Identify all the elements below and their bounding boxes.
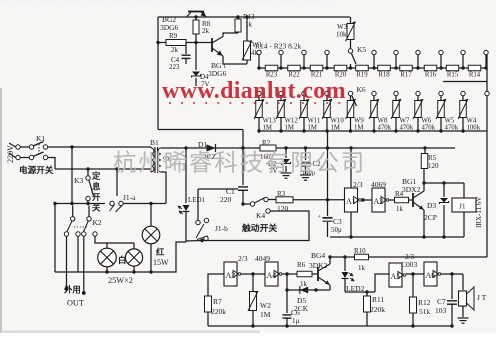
wire A5 input bbox=[375, 274, 389, 292]
diode D5 bbox=[287, 289, 330, 291]
switch K2 pole1 bbox=[72, 206, 74, 217]
op-amp A1 (inverter) bbox=[345, 188, 358, 212]
wire A3 to A4 bbox=[241, 273, 265, 275]
svg-text:K5: K5 bbox=[357, 45, 366, 54]
node R13 top bbox=[236, 15, 239, 18]
terminal lamp row 2 bbox=[76, 232, 80, 236]
op-amp A4 (inverter) bbox=[265, 262, 278, 286]
switch K3 bbox=[87, 169, 89, 176]
svg-text:W9: W9 bbox=[354, 118, 364, 125]
wire LED1 vertical bbox=[185, 148, 187, 203]
svg-text:K1: K1 bbox=[36, 134, 45, 143]
svg-text:470k: 470k bbox=[445, 125, 459, 132]
svg-text:K2: K2 bbox=[93, 218, 102, 227]
svg-text:K6: K6 bbox=[357, 85, 366, 94]
svg-text:开: 开 bbox=[92, 192, 101, 202]
capacitor C6 bbox=[286, 274, 288, 313]
wire collector up bbox=[423, 171, 425, 191]
node W1 top bbox=[245, 15, 248, 18]
zener D2 bbox=[284, 146, 287, 149]
svg-text:2k: 2k bbox=[171, 46, 179, 54]
wire right border bbox=[486, 55, 488, 131]
potentiometer W10 bbox=[326, 96, 328, 100]
svg-text:3DG6: 3DG6 bbox=[160, 23, 179, 32]
svg-text:A1: A1 bbox=[346, 197, 356, 206]
svg-text:50μ: 50μ bbox=[331, 226, 342, 234]
svg-text:470k: 470k bbox=[378, 125, 392, 132]
svg-text:OUT: OUT bbox=[67, 299, 84, 308]
K1 link dashed bbox=[38, 144, 40, 155]
wire bottom bus bbox=[208, 325, 452, 327]
svg-text:C3: C3 bbox=[333, 217, 342, 226]
svg-text:触动开关: 触动开关 bbox=[242, 222, 277, 233]
resistor R12 bbox=[412, 274, 414, 297]
svg-text:W8: W8 bbox=[378, 118, 388, 125]
node A1 supply bbox=[349, 146, 352, 149]
terminal W12 top bbox=[279, 91, 283, 95]
svg-text:BG4: BG4 bbox=[311, 251, 325, 260]
node R5 top bbox=[423, 146, 426, 149]
wire emitter down bbox=[423, 210, 425, 237]
wire pot bank bottom bus bbox=[259, 130, 487, 132]
resistor R10 bbox=[330, 256, 354, 258]
wire K1 pole2 to rail 169 bbox=[48, 158, 55, 170]
svg-text:C7: C7 bbox=[437, 297, 446, 306]
node x55 y203 bbox=[53, 202, 56, 205]
svg-text:W2: W2 bbox=[260, 301, 271, 310]
wire OUT line 2 bbox=[83, 236, 85, 292]
zener D3 bbox=[442, 181, 445, 184]
switch K5 bbox=[348, 49, 352, 53]
svg-text:2CP: 2CP bbox=[424, 213, 437, 222]
wire lamp bottom bus bbox=[55, 271, 151, 273]
wire spare selector bbox=[77, 236, 79, 272]
node C1 branch bbox=[241, 146, 244, 149]
svg-text:3DG6: 3DG6 bbox=[208, 69, 227, 78]
svg-text:1M: 1M bbox=[308, 125, 317, 132]
svg-text:R14 - R23 8.2k: R14 - R23 8.2k bbox=[255, 42, 302, 51]
speaker JT bbox=[462, 274, 464, 290]
node collector rail bbox=[422, 181, 425, 184]
resistor R16 bbox=[424, 65, 437, 71]
capacitor C1 bbox=[242, 148, 244, 185]
wire LED1 lower bbox=[185, 212, 187, 243]
wire top rail bbox=[158, 16, 350, 18]
node top wire x72 bbox=[70, 145, 73, 148]
wire BG4 emitter bbox=[329, 285, 331, 290]
wire relay top rail bbox=[424, 182, 464, 184]
wire red lamp top bbox=[150, 203, 152, 226]
potentiometer W5 bbox=[440, 96, 442, 100]
switch K1 pole1 bbox=[9, 143, 16, 147]
lamp red bbox=[142, 226, 160, 244]
node x88 y203 bbox=[86, 202, 89, 205]
wire C1 left link bbox=[198, 188, 238, 190]
capacitor C3 bbox=[323, 217, 333, 219]
svg-text:R9: R9 bbox=[169, 32, 178, 40]
potentiometer W11 bbox=[303, 96, 305, 100]
wire pot bus to C3 vertical bbox=[327, 131, 329, 216]
terminal tap 9 (K5 bank) bbox=[461, 50, 465, 54]
resistor R7 bbox=[205, 296, 212, 312]
relay contact J1-b bbox=[196, 220, 200, 224]
potentiometer W3 bbox=[350, 17, 352, 23]
wire A4 out bbox=[282, 273, 297, 275]
node J1-a top bbox=[115, 167, 118, 170]
potentiometer W4 bbox=[462, 96, 464, 100]
svg-text:W11: W11 bbox=[308, 118, 321, 125]
wire A1-A2 bbox=[361, 199, 372, 201]
terminal tap 8 (K5 bank) bbox=[439, 50, 443, 54]
wire R9 left bbox=[158, 42, 166, 44]
potentiometer W2 bbox=[252, 274, 254, 291]
svg-text:1M: 1M bbox=[263, 125, 272, 132]
wire A1 supply drop bbox=[350, 148, 352, 188]
terminal tap 6 (K5 bank) bbox=[394, 50, 398, 54]
terminal tap 3 (K5 bank) bbox=[302, 50, 306, 54]
svg-text:220: 220 bbox=[220, 195, 232, 204]
svg-text:2/3: 2/3 bbox=[238, 254, 248, 263]
op-amp A2 (inverter) bbox=[372, 188, 385, 212]
resistor R13 bbox=[237, 17, 239, 19]
op-amp A3 (inverter) bbox=[224, 262, 237, 286]
svg-text:杭州晞睿科技有限公司: 杭州晞睿科技有限公司 bbox=[113, 150, 366, 176]
wire J1-a to red lamp bbox=[123, 203, 151, 205]
wire lamp bus to LED branch bbox=[151, 242, 186, 272]
terminal W13 top bbox=[257, 91, 261, 95]
terminal W5 top bbox=[439, 91, 443, 95]
K2 link dashed bbox=[74, 226, 88, 228]
svg-text:J1-b: J1-b bbox=[215, 224, 228, 233]
resistor R18 bbox=[378, 65, 391, 71]
svg-text:R7: R7 bbox=[213, 297, 222, 306]
node K3 top bbox=[86, 167, 89, 170]
svg-text:J1: J1 bbox=[459, 202, 466, 211]
resistor R14 bbox=[468, 65, 481, 71]
terminal tap 4 (K5 bank) bbox=[325, 50, 329, 54]
terminal tap 5 (K5 bank) bbox=[372, 50, 376, 54]
resistor R3 bbox=[268, 199, 276, 201]
wire A5 to A6 bbox=[406, 273, 424, 275]
svg-text:W6: W6 bbox=[422, 118, 432, 125]
wire A6 out bbox=[441, 273, 463, 275]
svg-text:25W×2: 25W×2 bbox=[108, 276, 133, 285]
bottom scan smudge bbox=[0, 331, 260, 334]
svg-text:白: 白 bbox=[118, 255, 126, 265]
terminal W10 top bbox=[325, 91, 329, 95]
wire rail y169 bbox=[55, 168, 151, 170]
svg-text:R15: R15 bbox=[447, 72, 459, 79]
svg-text:R5: R5 bbox=[428, 154, 437, 162]
svg-text:51k: 51k bbox=[419, 307, 431, 316]
svg-text:120: 120 bbox=[428, 162, 439, 170]
lamp white 2 bbox=[125, 249, 142, 266]
svg-text:W4: W4 bbox=[467, 118, 477, 125]
resistor R22 bbox=[288, 65, 301, 71]
terminal lamp row 4 bbox=[93, 232, 97, 236]
wire R9 right to base bbox=[186, 42, 212, 44]
terminal W11 top bbox=[302, 91, 306, 95]
svg-text:R11: R11 bbox=[372, 295, 384, 304]
op-amp A6 (inverter) bbox=[424, 262, 437, 286]
wire R6 to BG4 base bbox=[312, 273, 318, 275]
terminal right border top bbox=[485, 91, 489, 95]
wire left vertical bbox=[157, 17, 159, 130]
wire switch row y203.5 bbox=[55, 203, 105, 205]
svg-text:定: 定 bbox=[91, 171, 101, 181]
svg-text:D3: D3 bbox=[427, 201, 436, 210]
node C3 top bbox=[326, 198, 329, 201]
svg-text:R12: R12 bbox=[418, 298, 431, 307]
svg-text:R6: R6 bbox=[297, 261, 306, 269]
svg-text:息: 息 bbox=[92, 182, 101, 192]
svg-text:100k: 100k bbox=[467, 125, 481, 132]
wire R10 rail bbox=[369, 256, 488, 258]
potentiometer W1 bbox=[246, 17, 248, 41]
wire J1-b bottom bbox=[186, 240, 202, 243]
svg-text:3DX2: 3DX2 bbox=[402, 185, 421, 194]
svg-text:1μ: 1μ bbox=[292, 317, 300, 325]
svg-text:LED1: LED1 bbox=[188, 196, 206, 204]
svg-text:K4: K4 bbox=[256, 211, 265, 220]
top faint scan marks bbox=[4, 1, 330, 3]
svg-text:470k: 470k bbox=[400, 125, 414, 132]
svg-text:15W: 15W bbox=[153, 258, 169, 267]
wire x55 down to lamp bus bbox=[54, 204, 56, 273]
wire emitter rail y237 bbox=[330, 236, 464, 238]
svg-text:www.dianlut.com: www.dianlut.com bbox=[162, 78, 346, 104]
svg-text:R16: R16 bbox=[425, 72, 437, 79]
node R8 bottom bbox=[194, 41, 197, 44]
wire K1 to B1 primary bbox=[48, 146, 151, 148]
relay contact J1-a bbox=[116, 169, 118, 196]
svg-text:1M: 1M bbox=[285, 125, 294, 132]
node R9-left bbox=[156, 41, 159, 44]
wire A1 bottom bbox=[350, 212, 352, 237]
node K5 blade on chain bbox=[349, 66, 352, 69]
svg-text:1M: 1M bbox=[354, 125, 363, 132]
terminal W4 top bbox=[461, 91, 465, 95]
svg-text:W5: W5 bbox=[445, 118, 455, 125]
svg-text:电源开关: 电源开关 bbox=[19, 164, 54, 175]
svg-text:R18: R18 bbox=[378, 72, 390, 79]
svg-text:A3: A3 bbox=[226, 271, 236, 280]
svg-text:W13: W13 bbox=[263, 118, 277, 125]
terminal lamp row 1 bbox=[64, 232, 68, 236]
wire OUT line 1 bbox=[66, 236, 68, 288]
ground speaker bbox=[458, 317, 469, 319]
svg-text:R14: R14 bbox=[469, 72, 481, 79]
potentiometer W13 bbox=[258, 96, 260, 100]
resistor R8 bbox=[195, 17, 197, 20]
wire R3 to A1 bbox=[293, 199, 345, 201]
svg-text:B1: B1 bbox=[150, 138, 159, 147]
svg-text:外用: 外用 bbox=[63, 285, 81, 295]
LED LED2 bbox=[344, 257, 346, 271]
svg-text:J T: J T bbox=[477, 293, 487, 302]
node R8 top bbox=[194, 15, 197, 18]
resistor R20 bbox=[334, 65, 347, 71]
svg-text:J1-a: J1-a bbox=[123, 193, 136, 202]
svg-text:W10: W10 bbox=[331, 118, 345, 125]
svg-text:470k: 470k bbox=[422, 125, 436, 132]
potentiometer W12 bbox=[280, 96, 282, 100]
switch K2 pole2 bbox=[88, 206, 90, 217]
wire lower horizontal to C1 branch bbox=[158, 129, 243, 131]
potentiometer W9 bbox=[350, 96, 352, 100]
svg-text:1k: 1k bbox=[358, 264, 366, 272]
resistor R23 bbox=[265, 65, 278, 71]
svg-text:223: 223 bbox=[169, 63, 180, 71]
lamp white 1 bbox=[98, 248, 117, 267]
svg-text:1M: 1M bbox=[260, 310, 271, 319]
zener D4 bbox=[195, 43, 197, 71]
svg-text:220k: 220k bbox=[370, 305, 385, 314]
svg-text:W12: W12 bbox=[285, 118, 299, 125]
resistor R5 bbox=[424, 148, 426, 153]
resistor R21 bbox=[310, 65, 323, 71]
svg-text:10k: 10k bbox=[336, 31, 347, 39]
resistor R15 bbox=[446, 65, 459, 71]
capacitor C4 bbox=[185, 43, 187, 55]
svg-text:1k: 1k bbox=[300, 280, 308, 288]
wire vertical x72 bbox=[71, 147, 73, 204]
wire resistor chain bbox=[259, 67, 487, 69]
svg-text:K3: K3 bbox=[74, 176, 83, 185]
svg-text:1M: 1M bbox=[331, 125, 340, 132]
svg-text:IRX-11 6V: IRX-11 6V bbox=[475, 197, 483, 228]
terminal tap 7 (K5 bank) bbox=[416, 50, 420, 54]
svg-text:A4: A4 bbox=[267, 271, 277, 280]
svg-text:2k: 2k bbox=[202, 27, 210, 35]
svg-text:103: 103 bbox=[435, 306, 447, 315]
svg-text:A2: A2 bbox=[374, 197, 384, 206]
terminal tap 2 (K5 bank) bbox=[279, 50, 283, 54]
wire C1 branch vertical top bbox=[242, 130, 244, 149]
wire row bracket bbox=[443, 81, 487, 83]
relay coil J1 bbox=[463, 183, 465, 198]
wire BG4 collector bbox=[329, 257, 331, 264]
terminal W7 top bbox=[394, 91, 398, 95]
terminal lamp row 3 bbox=[82, 232, 86, 236]
switch K4 touch bbox=[241, 202, 244, 205]
potentiometer W6 bbox=[417, 96, 419, 100]
svg-text:C003: C003 bbox=[401, 260, 418, 269]
terminal W6 top bbox=[416, 91, 420, 95]
transistor BG1 bbox=[211, 38, 213, 52]
terminal tap 1 (K5 bank) bbox=[257, 50, 261, 54]
potentiometer W7 bbox=[395, 96, 397, 100]
op-amp A5 (inverter) bbox=[389, 263, 402, 287]
svg-text:R17: R17 bbox=[400, 72, 412, 79]
svg-text:红: 红 bbox=[156, 247, 165, 257]
terminal W8 top bbox=[372, 91, 376, 95]
transistor BG2 bbox=[188, 11, 204, 13]
wire white lamp feed bbox=[95, 236, 134, 243]
svg-text:A6: A6 bbox=[426, 271, 436, 280]
svg-text:R19: R19 bbox=[356, 72, 368, 79]
svg-text:D1: D1 bbox=[198, 140, 207, 149]
potentiometer W8 bbox=[373, 96, 375, 100]
svg-text:1k: 1k bbox=[396, 205, 404, 213]
svg-text:220k: 220k bbox=[211, 307, 226, 316]
wire R7 to A3 bbox=[208, 274, 224, 296]
wire A2 out bbox=[389, 199, 394, 201]
svg-text:A5: A5 bbox=[391, 272, 401, 281]
node x72 y203 bbox=[70, 202, 73, 205]
wire LED2 to A5 bbox=[345, 291, 375, 293]
resistor R11 bbox=[366, 292, 368, 296]
svg-text:1k: 1k bbox=[245, 21, 253, 29]
terminal W9 top bbox=[348, 91, 352, 95]
wire DC bus y148 bbox=[161, 147, 260, 149]
switch K1 pole2 bbox=[9, 153, 16, 158]
wire R4 to base bbox=[409, 199, 414, 201]
resistor R19 bbox=[356, 65, 369, 71]
resistor R17 bbox=[400, 65, 413, 71]
svg-text:C6: C6 bbox=[291, 308, 300, 317]
capacitor C2 bbox=[304, 146, 307, 149]
capacitor C7 bbox=[451, 274, 453, 299]
terminal tap 10 (K5 bank) bbox=[484, 50, 488, 54]
svg-text:120: 120 bbox=[277, 204, 289, 213]
left scan edge bbox=[0, 88, 2, 333]
wire K4 loop bbox=[202, 211, 309, 241]
svg-text:W7: W7 bbox=[400, 118, 410, 125]
wire transformer secondary return bbox=[161, 172, 166, 204]
node LED1 top bbox=[184, 146, 187, 149]
